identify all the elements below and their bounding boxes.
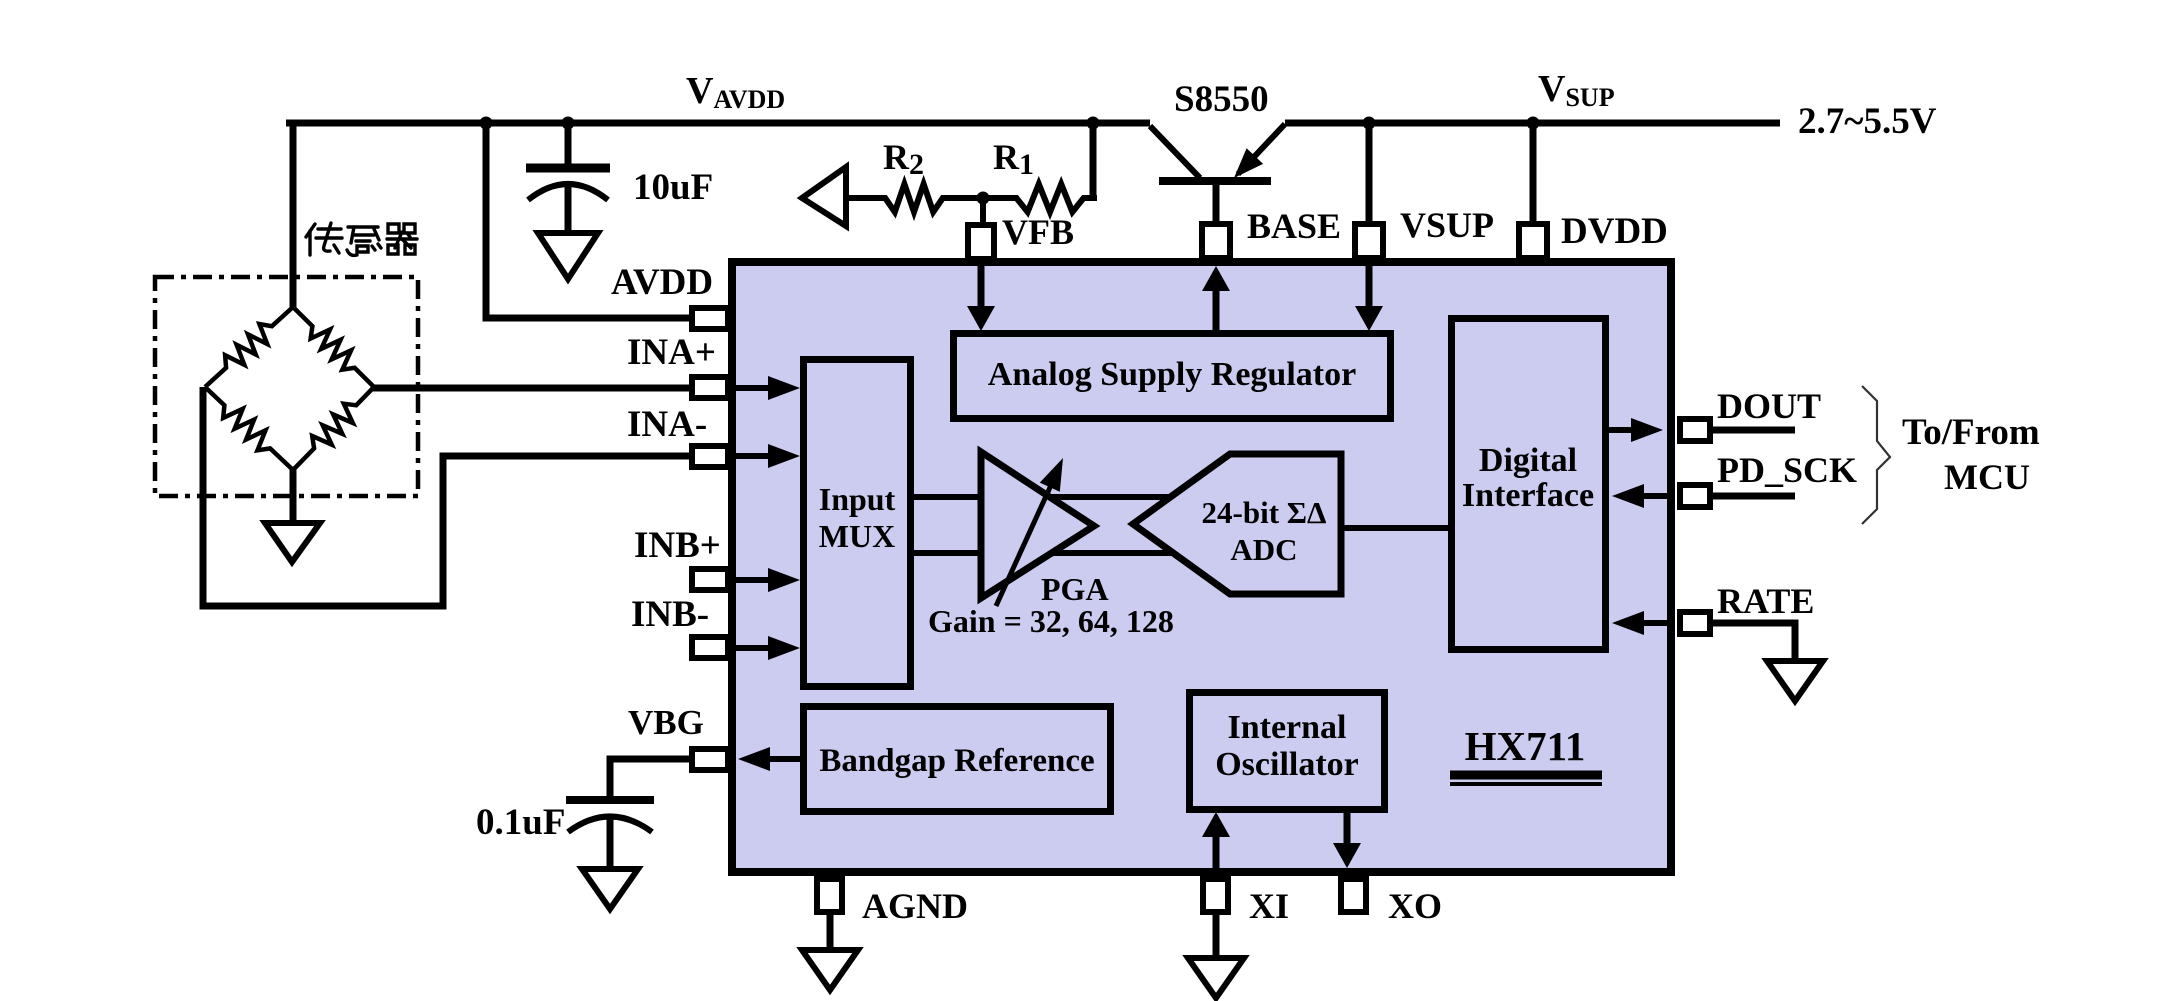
arrow INA- into MUX (736, 453, 775, 459)
wire ADC to Digital Interface (1341, 525, 1448, 531)
svg-text:VSUP: VSUP (1400, 205, 1494, 245)
PGA gain arrow (996, 483, 1052, 606)
pin AGND (817, 879, 842, 912)
arrow up to BASE pin (1213, 288, 1220, 332)
svg-text:RATE: RATE (1717, 581, 1814, 621)
resistor R1 (1015, 184, 1085, 212)
svg-text:S8550: S8550 (1174, 79, 1269, 120)
arrow XI pin up to oscillator (1213, 835, 1220, 870)
pin INB- (692, 637, 728, 658)
wire bridge bottom to ground (290, 470, 297, 525)
sensor label (Chinese: chuan gan qi) (306, 223, 417, 255)
capacitor C2 0.1uF top plate (566, 796, 654, 804)
pin XO (1341, 879, 1366, 912)
wire RATE external to ground (1713, 623, 1795, 663)
arrow INB- into MUX (736, 645, 775, 651)
wire C2 to ground (607, 816, 614, 871)
svg-text:Internal: Internal (1228, 709, 1347, 746)
pin INB+ (692, 569, 728, 590)
pin BASE (1202, 224, 1230, 258)
svg-text:To/From: To/From (1902, 412, 2040, 453)
wire VAVDD rail left segment (286, 120, 1150, 127)
svg-text:INA-: INA- (627, 404, 707, 445)
svg-text:DOUT: DOUT (1717, 386, 1821, 426)
arrow PD_SCK into Digital Interface (1640, 493, 1667, 499)
svg-text:2.7~5.5V: 2.7~5.5V (1798, 101, 1937, 142)
svg-text:MCU: MCU (1944, 457, 2030, 497)
feedback output buffer triangle (802, 167, 846, 226)
wire sensor supply drop (290, 120, 297, 307)
brace to MCU (1862, 386, 1890, 524)
wire MUX to PGA upper (914, 494, 981, 500)
arrow INA+ into MUX (736, 385, 775, 391)
svg-text:Input: Input (819, 481, 896, 517)
pin PD_SCK (1680, 485, 1710, 507)
junction node on rail at AVDD branch (480, 117, 493, 130)
svg-text:ADC: ADC (1230, 532, 1297, 567)
svg-text:AVDD: AVDD (611, 262, 713, 303)
transistor emitter diagonal with arrow (1238, 124, 1285, 174)
capacitor C2 curved plate (568, 817, 652, 833)
wire buffer to R2 (846, 195, 886, 201)
pin VSUP (1355, 224, 1383, 258)
svg-text:INA+: INA+ (627, 332, 716, 373)
junction node on rail at DVDD (1527, 117, 1540, 130)
wire 10uF capacitor drop (565, 123, 572, 170)
transistor base wire to BASE pin (1213, 184, 1220, 222)
junction node VFB (977, 192, 990, 205)
ground below sensor bridge (265, 523, 320, 562)
pin INA- (692, 446, 728, 467)
wire PGA to ADC upper (1050, 494, 1170, 500)
svg-text:10uF: 10uF (633, 167, 713, 208)
pin DVDD (1519, 224, 1547, 258)
ground below XI (1188, 958, 1244, 998)
sensor dash-dot box (155, 277, 418, 496)
arrow RATE into Digital Interface (1640, 620, 1667, 626)
svg-text:DVDD: DVDD (1561, 211, 1668, 252)
svg-text:BASE: BASE (1247, 206, 1341, 246)
wire AVDD branch (486, 123, 689, 318)
arrow Digital Interface to DOUT (1609, 427, 1636, 433)
pin VFB (968, 225, 994, 259)
wire XI to ground (1213, 913, 1220, 960)
block Input MUX (804, 360, 911, 687)
block Internal Oscillator (1190, 693, 1385, 810)
pin VBG (692, 749, 728, 770)
pin RATE (1680, 612, 1710, 634)
block Analog Supply Regulator (954, 334, 1391, 419)
arrow Bandgap Reference to VBG pin (765, 756, 800, 762)
wire R1 riser (1090, 123, 1097, 198)
svg-text:AGND: AGND (862, 886, 968, 926)
ground below 10uF (538, 233, 598, 279)
svg-text:Digital: Digital (1479, 442, 1577, 479)
wire PGA to ADC lower (1051, 550, 1173, 556)
junction node on rail at 10uF (562, 117, 575, 130)
arrow VFB pin down to regulator (978, 262, 985, 310)
arrow INB+ into MUX (736, 577, 775, 583)
wire R1 to riser (1083, 195, 1097, 201)
block 24-bit SigmaDelta ADC hexagon (1133, 454, 1341, 594)
wire MUX to PGA lower (914, 550, 981, 556)
svg-text:VBG: VBG (628, 703, 704, 742)
svg-text:24-bit ΣΔ: 24-bit ΣΔ (1202, 495, 1327, 530)
svg-text:INB+: INB+ (634, 525, 721, 566)
svg-text:Interface: Interface (1462, 477, 1594, 514)
capacitor C1 10uF top plate (526, 164, 610, 173)
ground below 0.1uF (582, 869, 638, 909)
capacitor C1 curved plate (528, 184, 608, 200)
wire PD_SCK external (1713, 493, 1795, 500)
pin DOUT (1680, 419, 1710, 441)
amplifier PGA triangle (981, 452, 1094, 598)
arrow oscillator down to XO pin (1344, 813, 1351, 845)
wire R2 to R1 (942, 195, 1017, 201)
block Digital Interface (1452, 319, 1606, 650)
svg-text:0.1uF: 0.1uF (476, 802, 565, 843)
pin XI (1203, 879, 1228, 912)
wire VSUP rail right segment (1285, 120, 1780, 127)
transistor Q1 S8550 base bar (1159, 177, 1271, 185)
wire DOUT external (1713, 427, 1795, 434)
ground below AGND (802, 950, 858, 990)
svg-text:Bandgap Reference: Bandgap Reference (819, 743, 1094, 779)
pin AVDD (692, 308, 728, 329)
svg-text:XI: XI (1249, 886, 1289, 926)
wire AGND to ground (827, 913, 834, 952)
svg-text:INB-: INB- (631, 594, 709, 635)
svg-text:PD_SCK: PD_SCK (1717, 450, 1857, 490)
wire VSUP pin drop (1366, 123, 1373, 222)
pin INA+ (692, 377, 728, 398)
svg-text:HX711: HX711 (1465, 723, 1586, 769)
svg-text:VFB: VFB (1002, 212, 1074, 252)
junction node on rail at R1 (1087, 117, 1100, 130)
wire VBG to 0.1uF (610, 759, 689, 800)
wire C1 to ground (565, 183, 572, 235)
ground below RATE (1767, 661, 1823, 701)
bridge resistor bottom-left arm (205, 387, 293, 470)
svg-text:XO: XO (1388, 886, 1442, 926)
chip body U1 HX711 (732, 262, 1671, 872)
arrow VSUP pin down to regulator (1366, 262, 1373, 310)
junction node on rail at VSUP (1363, 117, 1376, 130)
svg-text:MUX: MUX (819, 518, 895, 554)
wire DVDD pin drop (1530, 123, 1537, 222)
bridge resistor bottom-right arm (293, 387, 374, 470)
svg-text:Gain = 32, 64, 128: Gain = 32, 64, 128 (928, 603, 1174, 639)
wire INA- from bridge left vertex (203, 387, 689, 606)
wire VFB pin drop (980, 198, 986, 224)
block Bandgap Reference (804, 707, 1111, 812)
transistor collector diagonal (1150, 126, 1200, 178)
svg-text:Analog Supply Regulator: Analog Supply Regulator (988, 356, 1356, 393)
bridge resistor top-right arm (293, 307, 374, 387)
bridge resistor top-left arm (205, 307, 293, 387)
svg-text:Oscillator: Oscillator (1215, 746, 1359, 783)
wire INA+ from bridge right vertex (372, 385, 689, 392)
svg-text:PGA: PGA (1041, 571, 1109, 607)
resistor R2 (884, 184, 944, 212)
